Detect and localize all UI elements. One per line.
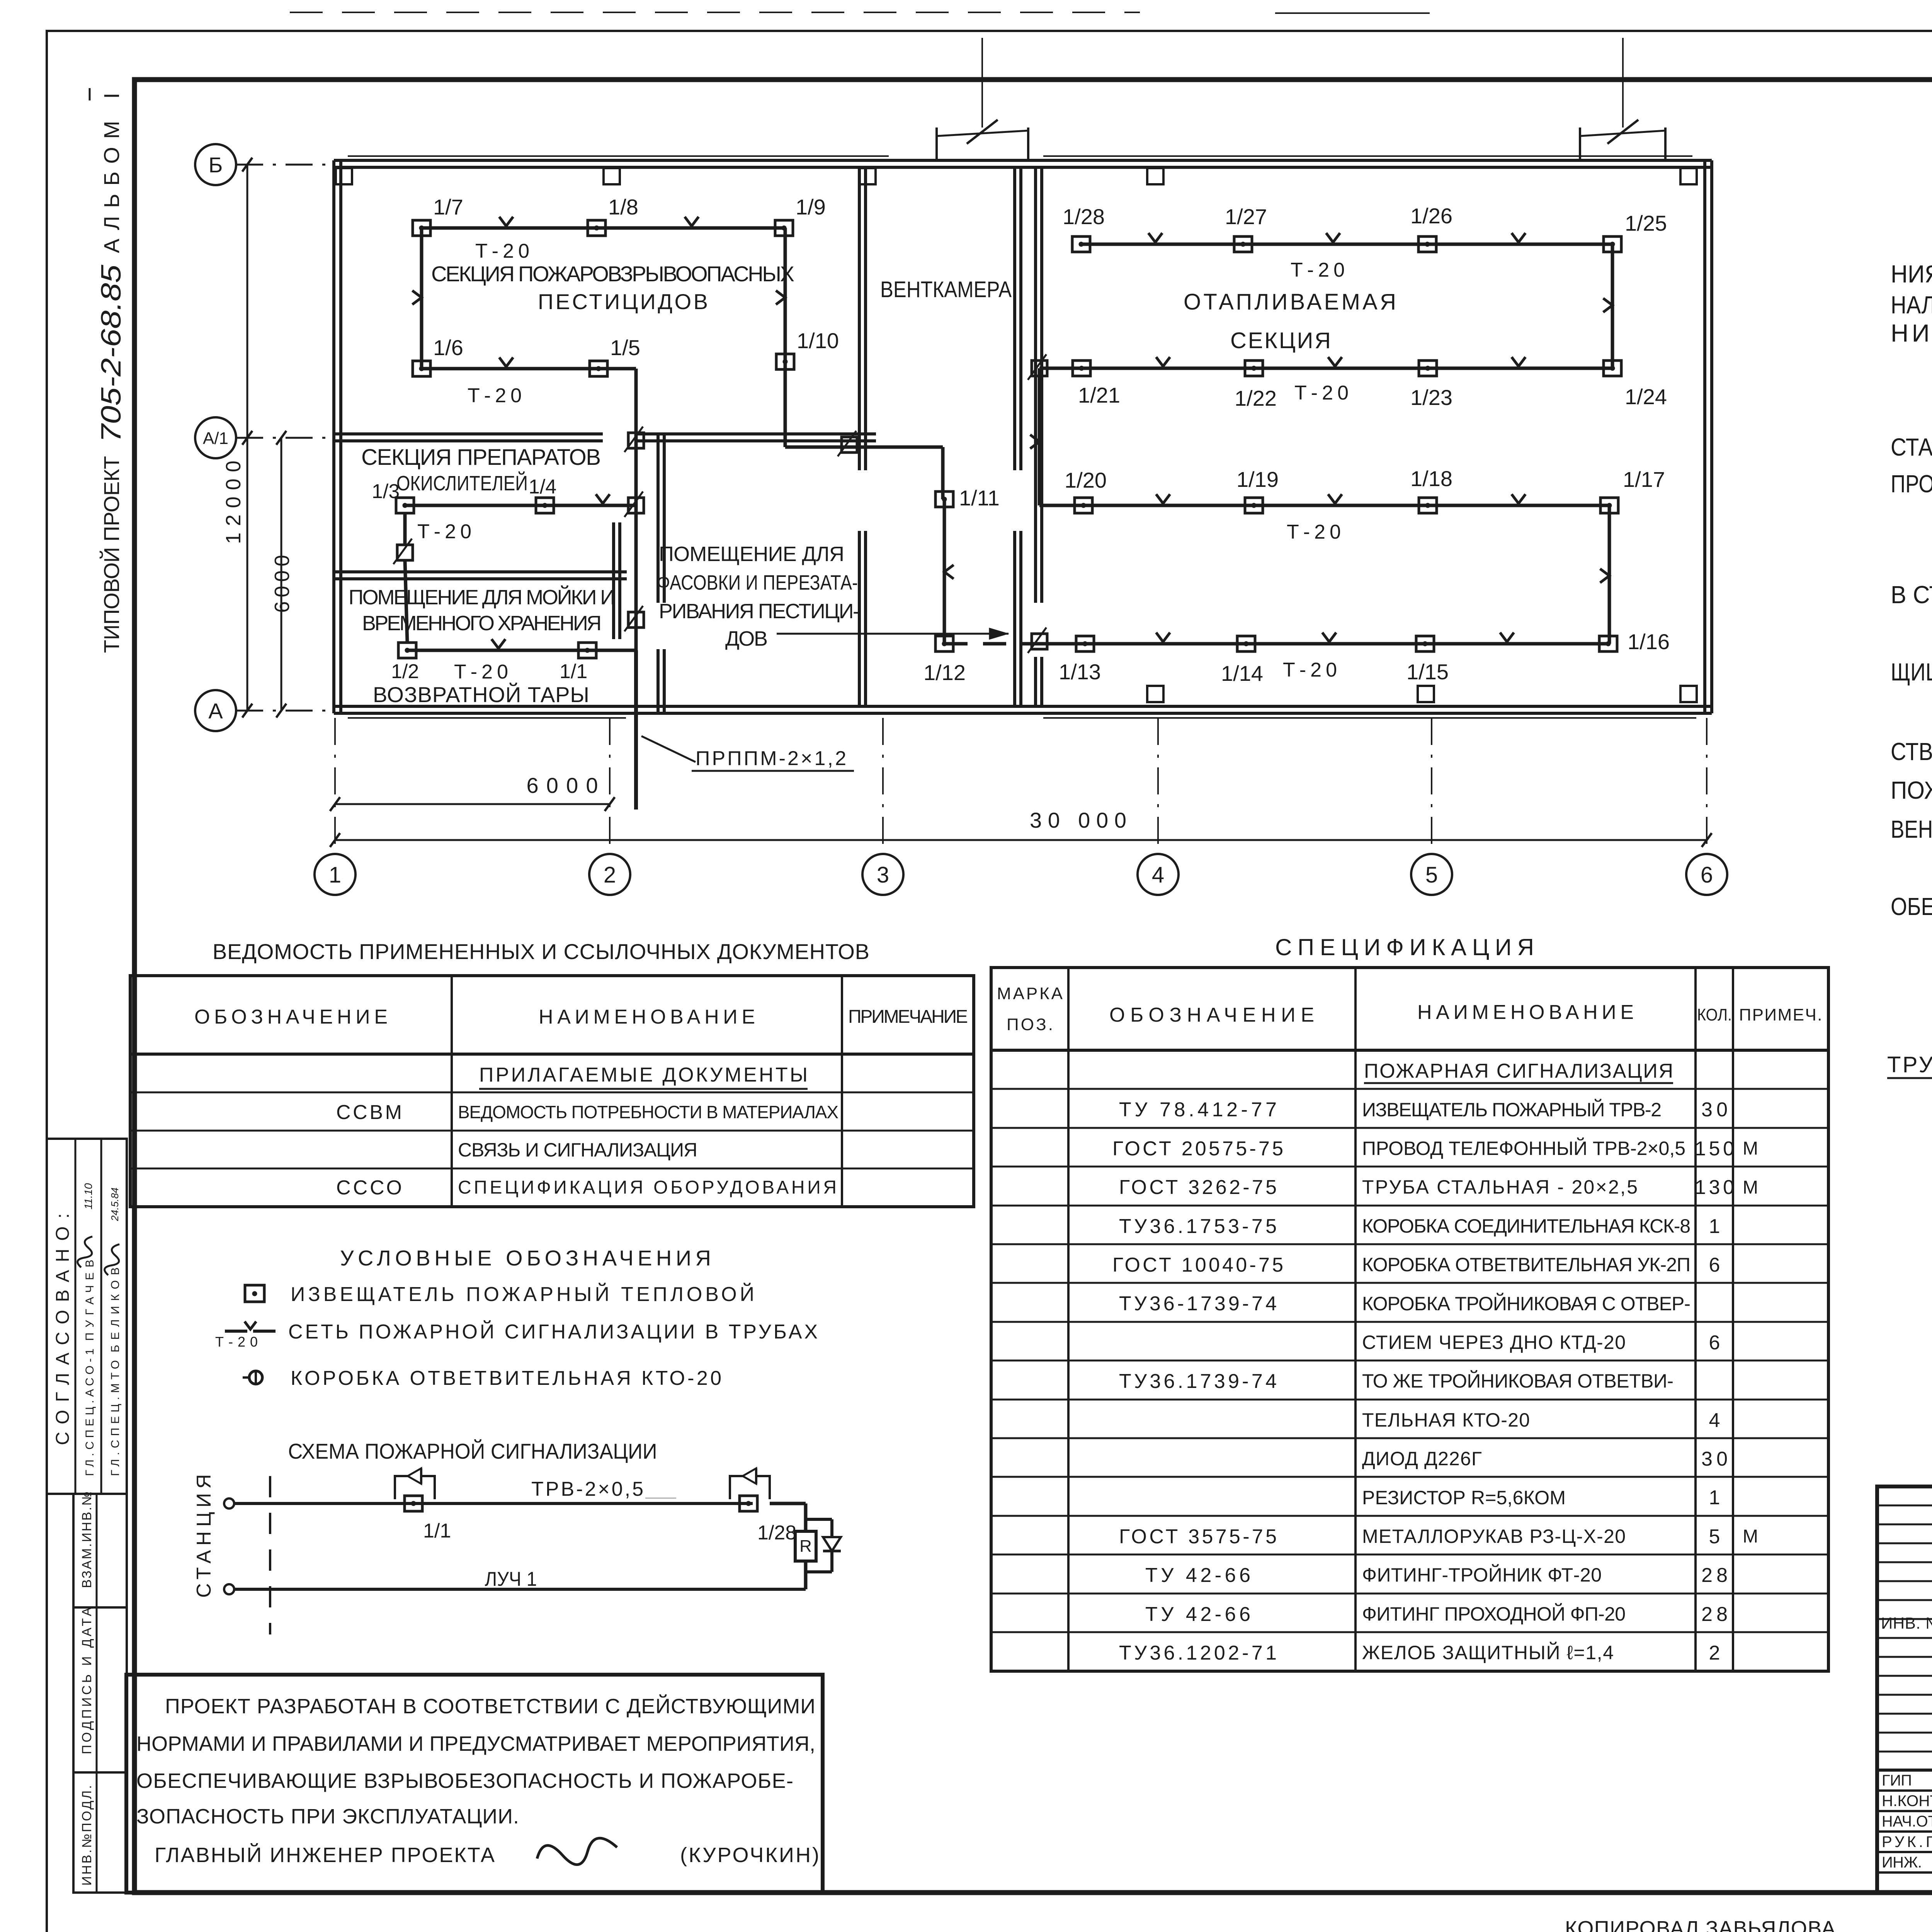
- svg-text:КОРОБКА СОЕДИНИТЕЛЬНАЯ КСК-8: КОРОБКА СОЕДИНИТЕЛЬНАЯ КСК-8: [1362, 1215, 1690, 1237]
- svg-text:НИИ ТИПА ТРВ-2.: НИИ ТИПА ТРВ-2.: [1891, 319, 1932, 347]
- svg-text:ЗОПАСНОСТЬ ПРИ ЭКСПЛУАТАЦИИ.: ЗОПАСНОСТЬ ПРИ ЭКСПЛУАТАЦИИ.: [136, 1805, 519, 1828]
- svg-text:ВЗАМ.ИНВ.№: ВЗАМ.ИНВ.№: [80, 1492, 94, 1588]
- svg-text:2: 2: [1709, 1642, 1720, 1664]
- svg-text:ТУ36.1202-71: ТУ36.1202-71: [1119, 1642, 1277, 1664]
- svg-text:СТАНЦИИ ТИПА ТОЛ. ПРИ ПОДКЛЮЧЕ: СТАНЦИИ ТИПА ТОЛ. ПРИ ПОДКЛЮЧЕНИИ ЛУЧА К…: [1891, 433, 1932, 461]
- svg-text:А/1: А/1: [203, 429, 228, 448]
- svg-text:КОРОБКА ТРОЙНИКОВАЯ С ОТВЕР-: КОРОБКА ТРОЙНИКОВАЯ С ОТВЕР-: [1362, 1293, 1690, 1315]
- svg-text:ПРОИЗВЕСТИ СООТВЕТСТВУЮЩУЮ КОР: ПРОИЗВЕСТИ СООТВЕТСТВУЮЩУЮ КОРРЕКТИРОВКУ…: [1891, 470, 1932, 498]
- svg-text:1/3: 1/3: [372, 480, 400, 503]
- svg-text:ПОЖАРНАЯ СИГНАЛИЗАЦИЯ: ПОЖАРНАЯ СИГНАЛИЗАЦИЯ: [1364, 1060, 1673, 1082]
- svg-text:1/25: 1/25: [1625, 211, 1667, 235]
- svg-text:1/2: 1/2: [391, 660, 419, 683]
- svg-text:НОРМАМИ И ПРАВИЛАМИ И ПРЕДУСМА: НОРМАМИ И ПРАВИЛАМИ И ПРЕДУСМАТРИВАЕТ МЕ…: [136, 1732, 815, 1755]
- svg-text:ГОСТ 3262-75: ГОСТ 3262-75: [1119, 1176, 1277, 1199]
- svg-text:ФИТИНГ ПРОХОДНОЙ ФП-20: ФИТИНГ ПРОХОДНОЙ ФП-20: [1362, 1603, 1626, 1625]
- svg-text:ИЗВЕЩАТЕЛЬ ПОЖАРНЫЙ ТРВ-2: ИЗВЕЩАТЕЛЬ ПОЖАРНЫЙ ТРВ-2: [1362, 1099, 1662, 1121]
- svg-text:(КУРОЧКИН): (КУРОЧКИН): [680, 1844, 819, 1867]
- svg-text:Т-20: Т-20: [417, 520, 471, 543]
- svg-text:12000: 12000: [222, 461, 245, 544]
- svg-text:ФИТИНГ-ТРОЙНИК ФТ-20: ФИТИНГ-ТРОЙНИК ФТ-20: [1362, 1564, 1602, 1586]
- svg-text:1/7: 1/7: [433, 195, 463, 219]
- svg-text:КОЛ.: КОЛ.: [1697, 1005, 1732, 1024]
- svg-text:Н.КОНТР.: Н.КОНТР.: [1882, 1793, 1932, 1810]
- svg-text:ВОЗВРАТНОЙ ТАРЫ: ВОЗВРАТНОЙ ТАРЫ: [373, 682, 589, 707]
- svg-text:ТУ 42-66: ТУ 42-66: [1145, 1564, 1250, 1587]
- svg-text:1: 1: [1709, 1486, 1720, 1509]
- svg-text:ГОСТ 20575-75: ГОСТ 20575-75: [1112, 1138, 1283, 1160]
- svg-text:1/15: 1/15: [1406, 660, 1449, 684]
- svg-text:1/14: 1/14: [1221, 661, 1263, 685]
- svg-text:ТУ36.1739-74: ТУ36.1739-74: [1119, 1370, 1277, 1393]
- svg-text:11.10: 11.10: [82, 1183, 94, 1209]
- svg-text:ОБОЗНАЧЕНИЕ: ОБОЗНАЧЕНИЕ: [1109, 1004, 1314, 1026]
- svg-text:ПЕСТИЦИДОВ: ПЕСТИЦИДОВ: [538, 289, 708, 314]
- svg-text:АЛЬБОМ I: АЛЬБОМ I: [99, 93, 124, 253]
- svg-text:ГОСТ 10040-75: ГОСТ 10040-75: [1112, 1254, 1283, 1276]
- svg-text:ТО ЖЕ ТРОЙНИКОВАЯ ОТВЕТВИ-: ТО ЖЕ ТРОЙНИКОВАЯ ОТВЕТВИ-: [1362, 1370, 1673, 1392]
- svg-text:1/11: 1/11: [959, 486, 1000, 510]
- svg-text:1/9: 1/9: [796, 195, 826, 219]
- svg-text:СТАНЦИЯ: СТАНЦИЯ: [193, 1474, 215, 1598]
- svg-text:ОБЕСПЕЧЕНА ЭЛЕКТРОПИТАНИЕМ ПО: ОБЕСПЕЧЕНА ЭЛЕКТРОПИТАНИЕМ ПО 1 КАТЕГОРИ…: [1891, 893, 1932, 920]
- svg-text:ТУ 78.412-77: ТУ 78.412-77: [1119, 1099, 1277, 1121]
- svg-text:ПУГАЧЕВ: ПУГАЧЕВ: [83, 1260, 96, 1341]
- svg-text:ЖЕЛОБ ЗАЩИТНЫЙ ℓ=1,4: ЖЕЛОБ ЗАЩИТНЫЙ ℓ=1,4: [1362, 1641, 1614, 1663]
- svg-text:150: 150: [1695, 1138, 1734, 1160]
- svg-text:1: 1: [329, 862, 341, 888]
- svg-text:ПОЖАРНОЙ СИГНАЛИЗАЦИИ”. ВНИИПО: ПОЖАРНОЙ СИГНАЛИЗАЦИИ”. ВНИИПО СССР 1971…: [1891, 776, 1932, 804]
- svg-text:СПЕЦИФИКАЦИЯ: СПЕЦИФИКАЦИЯ: [1275, 934, 1534, 960]
- svg-text:3: 3: [877, 862, 889, 888]
- svg-text:1/17: 1/17: [1623, 467, 1665, 492]
- svg-text:4: 4: [1709, 1409, 1720, 1432]
- svg-text:1: 1: [1709, 1215, 1720, 1238]
- svg-text:ПРОВОД ТЕЛЕФОННЫЙ ТРВ-2×0,5: ПРОВОД ТЕЛЕФОННЫЙ ТРВ-2×0,5: [1362, 1137, 1685, 1159]
- svg-text:1/28: 1/28: [757, 1522, 796, 1544]
- svg-text:ФАСОВКИ И ПЕРЕЗАТА-: ФАСОВКИ И ПЕРЕЗАТА-: [657, 571, 858, 594]
- svg-text:1/1: 1/1: [423, 1520, 451, 1542]
- svg-text:ЩИЩАЕМЫХ ПОМЕЩЕНИЙ В СПЕЦИАЛЬН: ЩИЩАЕМЫХ ПОМЕЩЕНИЙ В СПЕЦИАЛЬНЫХ КОРОБКА…: [1891, 658, 1932, 686]
- svg-text:ПРИЛАГАЕМЫЕ ДОКУМЕНТЫ: ПРИЛАГАЕМЫЕ ДОКУМЕНТЫ: [479, 1064, 808, 1086]
- svg-text:СССО: СССО: [336, 1177, 402, 1199]
- svg-text:ДОВ: ДОВ: [725, 627, 768, 650]
- svg-text:Т-20: Т-20: [475, 240, 529, 262]
- svg-text:СПЕЦИФИКАЦИЯ ОБОРУДОВАНИЯ: СПЕЦИФИКАЦИЯ ОБОРУДОВАНИЯ: [458, 1177, 837, 1198]
- svg-text:1/5: 1/5: [610, 335, 640, 360]
- svg-text:R: R: [799, 1537, 812, 1556]
- svg-text:24.5.84: 24.5.84: [109, 1187, 121, 1221]
- svg-text:ПРИМЕЧАНИЕ: ПРИМЕЧАНИЕ: [848, 1007, 968, 1027]
- svg-text:СЕКЦИЯ ПРЕПАРАТОВ: СЕКЦИЯ ПРЕПАРАТОВ: [361, 445, 601, 470]
- svg-text:Т-20: Т-20: [454, 661, 508, 683]
- svg-text:ОТАПЛИВАЕМАЯ: ОТАПЛИВАЕМАЯ: [1184, 289, 1396, 315]
- svg-text:СОГЛАСОВАНО:: СОГЛАСОВАНО:: [53, 1213, 73, 1445]
- svg-text:ИНВ.№ПОДЛ.: ИНВ.№ПОДЛ.: [80, 1785, 94, 1886]
- svg-text:КОРОБКА ОТВЕТВИТЕЛЬНАЯ КТО-20: КОРОБКА ОТВЕТВИТЕЛЬНАЯ КТО-20: [291, 1367, 721, 1389]
- svg-text:ТРУБА СТАЛЬНАЯ: ТРУБА СТАЛЬНАЯ: [1887, 1052, 1932, 1077]
- svg-text:1/21: 1/21: [1078, 383, 1120, 407]
- svg-text:1/4: 1/4: [529, 476, 556, 498]
- svg-text:5: 5: [1425, 862, 1438, 888]
- svg-text:ПОМЕЩЕНИЕ ДЛЯ МОЙКИ И: ПОМЕЩЕНИЕ ДЛЯ МОЙКИ И: [349, 585, 615, 609]
- svg-text:1/22: 1/22: [1235, 386, 1277, 410]
- svg-text:6000: 6000: [527, 773, 598, 798]
- svg-text:6: 6: [1701, 862, 1713, 888]
- svg-text:28: 28: [1701, 1564, 1728, 1587]
- svg-text:Т-20: Т-20: [468, 384, 522, 407]
- svg-text:ВРЕМЕННОГО ХРАНЕНИЯ: ВРЕМЕННОГО ХРАНЕНИЯ: [362, 612, 602, 635]
- svg-text:130: 130: [1695, 1176, 1734, 1199]
- svg-text:30: 30: [1701, 1448, 1728, 1470]
- svg-text:5: 5: [1709, 1526, 1720, 1548]
- svg-text:ПОЗ.: ПОЗ.: [1007, 1015, 1053, 1034]
- svg-text:ЛУЧ 1: ЛУЧ 1: [485, 1568, 537, 1590]
- svg-text:ССВМ: ССВМ: [336, 1101, 402, 1124]
- svg-text:М: М: [1743, 1138, 1758, 1159]
- svg-text:4: 4: [1152, 862, 1164, 888]
- svg-text:1/1: 1/1: [560, 660, 587, 683]
- svg-text:СТИЕМ ЧЕРЕЗ ДНО КТД-20: СТИЕМ ЧЕРЕЗ ДНО КТД-20: [1362, 1332, 1626, 1353]
- svg-text:2: 2: [604, 862, 616, 888]
- svg-text:Б: Б: [209, 153, 223, 177]
- svg-text:ПОДПИСЬ И ДАТА: ПОДПИСЬ И ДАТА: [80, 1607, 94, 1754]
- svg-text:6: 6: [1709, 1332, 1720, 1354]
- svg-text:30 000: 30 000: [1030, 808, 1126, 832]
- svg-text:Т-20: Т-20: [1287, 521, 1341, 543]
- svg-text:УСЛОВНЫЕ ОБОЗНАЧЕНИЯ: УСЛОВНЫЕ ОБОЗНАЧЕНИЯ: [340, 1246, 711, 1270]
- svg-text:ПРИМЕЧ.: ПРИМЕЧ.: [1739, 1005, 1822, 1024]
- svg-text:СЕТЬ ПОЖАРНОЙ СИГНАЛИЗАЦИИ В Т: СЕТЬ ПОЖАРНОЙ СИГНАЛИЗАЦИИ В ТРУБАХ: [288, 1320, 818, 1343]
- svg-text:МЕТАЛЛОРУКАВ РЗ-Ц-Х-20: МЕТАЛЛОРУКАВ РЗ-Ц-Х-20: [1362, 1526, 1626, 1547]
- svg-text:ВЕДОМОСТЬ ПРИМЕНЕННЫХ И ССЫЛОЧ: ВЕДОМОСТЬ ПРИМЕНЕННЫХ И ССЫЛОЧНЫХ ДОКУМЕ…: [213, 939, 869, 964]
- svg-text:ИНЖ.: ИНЖ.: [1882, 1854, 1922, 1871]
- svg-text:ПОМЕЩЕНИЕ ДЛЯ: ПОМЕЩЕНИЕ ДЛЯ: [659, 543, 844, 566]
- svg-text:ГЛАВНЫЙ ИНЖЕНЕР ПРОЕКТА: ГЛАВНЫЙ ИНЖЕНЕР ПРОЕКТА: [155, 1843, 495, 1867]
- svg-text:НИЯМ КЛАССА В-IА ПО ПУЭ, ИСХОД: НИЯМ КЛАССА В-IА ПО ПУЭ, ИСХОДЯ ИЗ ЭТОГО…: [1891, 260, 1932, 288]
- svg-text:1/23: 1/23: [1410, 385, 1452, 410]
- svg-text:Т-20: Т-20: [1294, 382, 1349, 404]
- svg-text:М: М: [1743, 1177, 1758, 1198]
- svg-text:МАРКА: МАРКА: [997, 984, 1063, 1003]
- svg-text:1/18: 1/18: [1410, 466, 1452, 491]
- svg-text:ПРППМ-2×1,2: ПРППМ-2×1,2: [696, 747, 846, 770]
- svg-text:6: 6: [1709, 1254, 1720, 1276]
- svg-text:ТУ36.1753-75: ТУ36.1753-75: [1119, 1215, 1277, 1238]
- svg-text:28: 28: [1701, 1603, 1728, 1626]
- svg-text:СЕКЦИЯ ПОЖАРОВЗРЫВООПАСНЫХ: СЕКЦИЯ ПОЖАРОВЗРЫВООПАСНЫХ: [431, 262, 794, 286]
- svg-text:ОКИСЛИТЕЛЕЙ: ОКИСЛИТЕЛЕЙ: [396, 471, 528, 495]
- svg-text:ОБОЗНАЧЕНИЕ: ОБОЗНАЧЕНИЕ: [194, 1006, 388, 1028]
- svg-text:ТРУБА СТАЛЬНАЯ - 20×2,5: ТРУБА СТАЛЬНАЯ - 20×2,5: [1362, 1176, 1638, 1198]
- svg-text:ТРВ-2×0,5: ТРВ-2×0,5: [531, 1478, 643, 1500]
- svg-text:30: 30: [1701, 1099, 1728, 1121]
- svg-text:ИНВ. №: ИНВ. №: [1881, 1614, 1932, 1632]
- svg-text:ПРОЕКТ РАЗРАБОТАН В СООТВЕТСТВ: ПРОЕКТ РАЗРАБОТАН В СООТВЕТСТВИИ С ДЕЙСТ…: [165, 1694, 815, 1718]
- svg-text:ВЕДОМОСТЬ ПОТРЕБНОСТИ В МАТЕРИ: ВЕДОМОСТЬ ПОТРЕБНОСТИ В МАТЕРИАЛАХ: [458, 1102, 838, 1122]
- svg-text:1/27: 1/27: [1225, 204, 1267, 229]
- svg-text:ОБЕСПЕЧИВАЮЩИЕ ВЗРЫВОБЕЗОПАСНО: ОБЕСПЕЧИВАЮЩИЕ ВЗРЫВОБЕЗОПАСНОСТЬ И ПОЖА…: [136, 1769, 793, 1793]
- svg-text:1/19: 1/19: [1236, 467, 1279, 492]
- svg-text:ТУ36-1739-74: ТУ36-1739-74: [1119, 1293, 1277, 1315]
- svg-text:Т-20: Т-20: [1283, 659, 1337, 681]
- svg-text:ТУ 42-66: ТУ 42-66: [1145, 1603, 1250, 1626]
- svg-text:СТВИИ С „РЕКОМЕНДАЦИЯМИ ПО ПРИ: СТВИИ С „РЕКОМЕНДАЦИЯМИ ПО ПРИМЕНЕНИЮ ЭЛ…: [1891, 737, 1932, 765]
- svg-text:705-2-68.85: 705-2-68.85: [96, 264, 127, 442]
- svg-text:НАИМЕНОВАНИЕ: НАИМЕНОВАНИЕ: [1417, 1001, 1634, 1024]
- svg-text:1/10: 1/10: [797, 328, 839, 353]
- svg-text:БЕЛИКОВ: БЕЛИКОВ: [109, 1267, 122, 1352]
- svg-text:ДИОД Д226Г: ДИОД Д226Г: [1362, 1448, 1482, 1469]
- svg-text:ТИПОВОЙ ПРОЕКТ: ТИПОВОЙ ПРОЕКТ: [99, 456, 124, 653]
- svg-text:1/24: 1/24: [1625, 384, 1667, 409]
- svg-text:1/12: 1/12: [923, 660, 966, 685]
- svg-text:1/16: 1/16: [1628, 629, 1670, 654]
- svg-text:1/20: 1/20: [1065, 468, 1107, 492]
- svg-text:1/6: 1/6: [433, 335, 463, 360]
- svg-text:ГЛ.СПЕЦ.МТО: ГЛ.СПЕЦ.МТО: [109, 1360, 122, 1476]
- svg-text:КОПИРОВАЛ ЗАВЬЯЛОВА: КОПИРОВАЛ ЗАВЬЯЛОВА: [1565, 1917, 1835, 1932]
- svg-text:РЕЗИСТОР R=5,6КОМ: РЕЗИСТОР R=5,6КОМ: [1362, 1487, 1566, 1509]
- svg-text:РУК.ГР.: РУК.ГР.: [1882, 1833, 1932, 1850]
- svg-text:СЕКЦИЯ: СЕКЦИЯ: [1230, 328, 1331, 353]
- svg-text:1/26: 1/26: [1410, 204, 1452, 228]
- svg-text:ИЗВЕЩАТЕЛЬ ПОЖАРНЫЙ ТЕПЛОВОЙ: ИЗВЕЩАТЕЛЬ ПОЖАРНЫЙ ТЕПЛОВОЙ: [291, 1283, 754, 1306]
- svg-text:НАЛИЗАЦИИ ВЫБРАНЫ ИЗВЕЩАТЕЛИ В: НАЛИЗАЦИИ ВЫБРАНЫ ИЗВЕЩАТЕЛИ ВО ВЗРЫВОБЕ…: [1891, 291, 1932, 319]
- svg-text:НАЧ.ОТД.: НАЧ.ОТД.: [1882, 1813, 1932, 1830]
- svg-text:СХЕМА ПОЖАРНОЙ СИГНАЛИЗАЦИИ: СХЕМА ПОЖАРНОЙ СИГНАЛИЗАЦИИ: [288, 1439, 657, 1463]
- svg-text:ГОСТ 3575-75: ГОСТ 3575-75: [1119, 1526, 1277, 1548]
- svg-text:1/8: 1/8: [608, 195, 638, 219]
- svg-text:ВЕННЫМИ ТЕХНИЧЕСКИМИ УСЛОВИЯМИ: ВЕННЫМИ ТЕХНИЧЕСКИМИ УСЛОВИЯМИ ВМСН-14-7…: [1891, 815, 1932, 843]
- svg-text:Т-20: Т-20: [215, 1334, 258, 1350]
- svg-text:ТЕЛЬНАЯ КТО-20: ТЕЛЬНАЯ КТО-20: [1362, 1409, 1530, 1431]
- svg-text:РИВАНИЯ ПЕСТИЦИ-: РИВАНИЯ ПЕСТИЦИ-: [659, 600, 860, 623]
- svg-text:Т-20: Т-20: [1291, 259, 1345, 281]
- svg-text:1/13: 1/13: [1059, 660, 1101, 684]
- svg-text:М: М: [1743, 1526, 1758, 1547]
- svg-text:ВЕНТКАМЕРА: ВЕНТКАМЕРА: [880, 277, 1012, 302]
- svg-text:НАИМЕНОВАНИЕ: НАИМЕНОВАНИЕ: [539, 1006, 755, 1028]
- svg-text:А: А: [208, 699, 223, 723]
- svg-text:В СТАЛЬНЫХ ТРУБАХ С КРЕПЛЕНИЕМ: В СТАЛЬНЫХ ТРУБАХ С КРЕПЛЕНИЕМ ИХ НА ПОТ…: [1891, 581, 1932, 609]
- svg-text:ГЛ.СПЕЦ.АСО-1: ГЛ.СПЕЦ.АСО-1: [83, 1349, 96, 1476]
- svg-text:1/28: 1/28: [1063, 204, 1105, 229]
- svg-text:СВЯЗЬ И СИГНАЛИЗАЦИЯ: СВЯЗЬ И СИГНАЛИЗАЦИЯ: [458, 1139, 697, 1161]
- svg-text:КОРОБКА ОТВЕТВИТЕЛЬНАЯ УК-2П: КОРОБКА ОТВЕТВИТЕЛЬНАЯ УК-2П: [1362, 1254, 1690, 1276]
- svg-text:ГИП: ГИП: [1882, 1772, 1912, 1789]
